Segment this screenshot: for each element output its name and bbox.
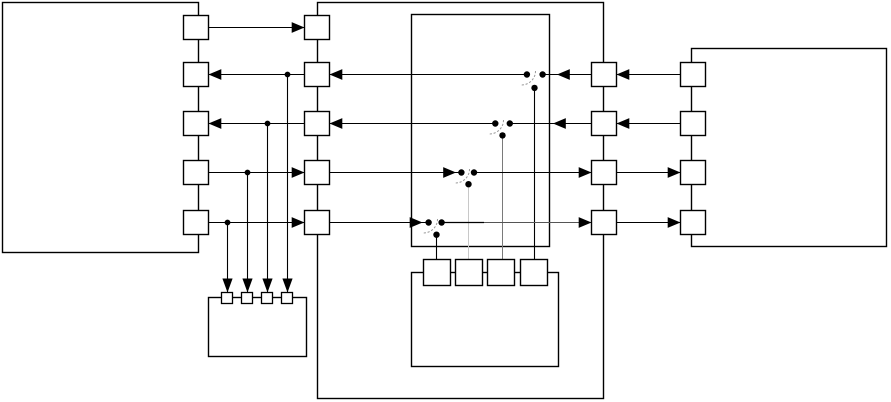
wire row5: switch stub down to control box port 1	[436, 235, 438, 260]
wire row5: left box port to mux left port	[209, 222, 305, 224]
wire row5: mux right port to right pad port	[617, 222, 681, 224]
port: right pad port row5	[681, 211, 706, 235]
junction node row2 drop	[285, 72, 291, 78]
arrowhead row4 into mux left port	[292, 167, 305, 178]
block: left device core box	[3, 3, 199, 253]
block: central I/O multiplexing module box	[318, 3, 604, 399]
wire row2: mux right port to switch pole	[543, 74, 592, 76]
switch SW4: lower contact dot	[465, 181, 471, 187]
arrowhead drop row4 into bottom-left box port	[242, 279, 252, 293]
port: mux right port row2	[592, 63, 617, 87]
junction node row5 drop	[225, 220, 231, 226]
arrowhead drop row3 into bottom-left box port	[262, 279, 272, 293]
switch SW5: throw contact dot	[425, 219, 431, 225]
arrowhead row2 into left box port	[209, 69, 222, 80]
arrowhead row2 into mux left port	[330, 69, 343, 80]
block: inner switch-matrix box	[412, 15, 550, 247]
arrowhead drop row2 into bottom-left box port	[282, 279, 292, 293]
switch SW5: wiper travel arc	[424, 219, 438, 233]
switch SW4: throw contact dot	[458, 169, 464, 175]
port: mux left port row1	[305, 16, 330, 40]
wire row4: mux left port to switch throw	[330, 172, 462, 174]
switch SW2: throw contact dot	[524, 71, 530, 77]
port: bottom-left box port 4	[282, 293, 293, 304]
wire row4: drop line from junction down to bottom-left box	[247, 173, 249, 293]
switch SW3: wiper travel arc	[490, 120, 504, 134]
switch SW3: lower contact dot	[499, 132, 505, 138]
wire row5: mux left port to switch throw	[330, 222, 429, 224]
port: left box port row1	[184, 16, 209, 40]
switch SW3: throw contact dot	[492, 120, 498, 126]
wire row5: switch pole to mux right port (dark then gray)	[442, 222, 484, 224]
arrowhead row5 into right pad port	[668, 217, 681, 228]
arrowhead row2 at switch pole	[557, 69, 570, 80]
switch SW3: pole contact dot	[507, 120, 513, 126]
port: mux right port row5	[592, 211, 617, 235]
port: left box port row3	[184, 112, 209, 136]
port: mux right port row3	[592, 112, 617, 136]
arrowhead row2 into mux right port	[617, 69, 630, 80]
arrowhead drop row5 into bottom-left box port	[222, 279, 232, 293]
wire row3: mux right port to switch pole	[510, 123, 592, 125]
switch SW2: wiper travel arc	[522, 71, 536, 85]
block: bottom-middle control box	[412, 273, 559, 367]
port: mux right port row4	[592, 161, 617, 185]
switch SW4: wiper travel arc	[456, 169, 470, 183]
block: right pads box	[692, 49, 887, 247]
wire row4: switch stub down to control box port 2 (light gray)	[468, 184, 470, 259]
port: control box port 3	[488, 260, 515, 286]
port: control box port 1	[424, 260, 451, 286]
wire row2: switch throw to mux left port	[330, 74, 527, 76]
port: bottom-left box port 3	[262, 293, 273, 304]
wire row3: switch throw to mux left port	[330, 123, 496, 125]
port: bottom-left box port 1	[222, 293, 233, 304]
port: left box port row4	[184, 161, 209, 185]
port: control box port 4	[521, 260, 548, 286]
wire row3: drop line from junction down to bottom-left box	[267, 124, 269, 293]
arrowhead row3 at switch pole	[553, 118, 566, 129]
junction node row3 drop	[265, 121, 271, 127]
port: bottom-left box port 2	[242, 293, 253, 304]
wire row2: drop line from junction down to bottom-left box	[287, 75, 289, 293]
wire row4: switch pole to mux right port	[474, 172, 592, 174]
block: bottom-left peripheral box	[209, 298, 307, 357]
arrowhead row1 into mux left port	[292, 22, 305, 33]
arrowhead row3 into mux left port	[330, 118, 343, 129]
port: mux left port row2	[305, 63, 330, 87]
port: mux left port row3	[305, 112, 330, 136]
arrowhead row5 into mux right port	[579, 217, 592, 228]
wire row4: mux right port to right pad port	[617, 172, 681, 174]
wire row3: right pad port to mux right port	[617, 123, 681, 125]
arrowhead row3 into left box port	[209, 118, 222, 129]
arrowhead row4 at switch throw	[443, 167, 456, 178]
wire row5: drop line from junction down to bottom-left box	[227, 223, 229, 293]
wire row4: left box port to mux left port	[209, 172, 305, 174]
wire row2: mux left port to left box port	[209, 74, 305, 76]
port: left box port row2	[184, 63, 209, 87]
arrowhead row4 into right pad port	[668, 167, 681, 178]
port: mux left port row4	[305, 161, 330, 185]
wire row1: left box port to mux left port	[209, 27, 305, 29]
port: right pad port row2	[681, 63, 706, 87]
port: right pad port row4	[681, 161, 706, 185]
junction node row4 drop	[245, 170, 251, 176]
arrowhead row5 at switch throw	[410, 217, 423, 228]
switch SW2: pole contact dot	[539, 71, 545, 77]
port: left box port row5	[184, 211, 209, 235]
port: control box port 2	[456, 260, 483, 286]
port: right pad port row3	[681, 112, 706, 136]
switch SW5: lower contact dot	[433, 232, 439, 238]
arrowhead row3 into mux right port	[617, 118, 630, 129]
arrowhead row4 into mux right port	[579, 167, 592, 178]
wire row2: right pad port to mux right port	[617, 74, 681, 76]
wire row2: switch stub down to control box port 4	[534, 88, 536, 260]
wire row3: mux left port to left box port	[209, 123, 305, 125]
switch SW5: pole contact dot	[438, 219, 444, 225]
wire row3: switch stub down to control box port 3 (gray)	[502, 135, 504, 259]
switch SW4: pole contact dot	[471, 169, 477, 175]
port: mux left port row5	[305, 211, 330, 235]
switch SW2: lower contact dot	[531, 85, 537, 91]
arrowhead row5 into mux left port	[292, 217, 305, 228]
